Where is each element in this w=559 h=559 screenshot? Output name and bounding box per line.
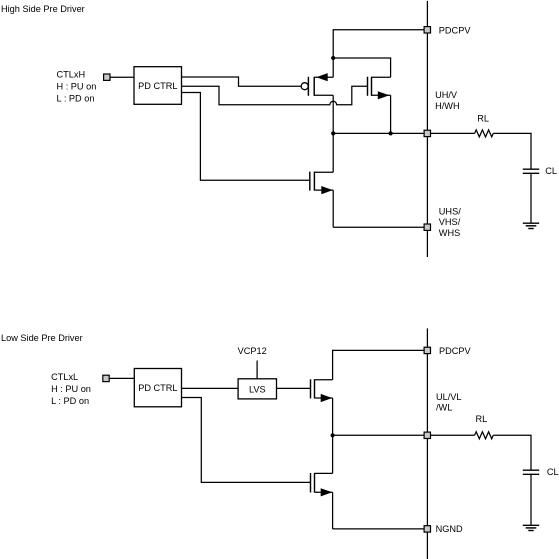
svg-text:H : PU on: H : PU on [57, 82, 97, 92]
block PD CTRL U2 (low side) [134, 369, 181, 407]
capacitor CL (high side) [523, 169, 539, 173]
wire CTLxL to PD CTRL input [110, 377, 135, 379]
junction dot UH/V rail left [331, 131, 335, 135]
wire VCP12 to LVS [256, 361, 258, 379]
wire Q2 source to UH/V rail [390, 95, 392, 133]
label UL/VL /WL [436, 392, 462, 413]
terminal CTLxH [104, 74, 110, 80]
ground (low side load) [523, 525, 539, 530]
wire PD CTRL out2 to Q5 gate [182, 398, 311, 483]
svg-text:PDCPV: PDCPV [439, 25, 472, 35]
wire Q4 source to UL/VL rail [332, 398, 334, 435]
svg-text:/WL: /WL [436, 403, 452, 413]
svg-text:PD CTRL: PD CTRL [138, 81, 177, 91]
junction dot UH/V rail right [389, 131, 393, 135]
wire UL/VL to RL (low side) [431, 434, 475, 436]
node CTLxH input label [57, 69, 97, 103]
terminal UL/VL [424, 432, 430, 438]
wire top link node to Q2 drain [333, 58, 390, 77]
transistor Q1 (high side PMOS pull-up, gate bubble) [301, 73, 333, 96]
svg-text:CTLxH: CTLxH [57, 69, 86, 79]
wire Q5 drain to UL/VL rail [332, 435, 334, 473]
svg-text:CTLxL: CTLxL [51, 372, 78, 382]
capacitor CL (low side) [523, 470, 539, 474]
wire PD CTRL out2 to Q2 gate (hop over Q1 drain) [182, 86, 368, 105]
wire phase bus vertical (high side) [426, 1, 428, 257]
svg-text:WHS: WHS [439, 228, 460, 238]
wire CL to ground (low side) [530, 474, 532, 525]
wire phase bus vertical (low side) [426, 328, 428, 559]
svg-text:H : PU on: H : PU on [51, 384, 91, 394]
svg-text:UH/V: UH/V [435, 90, 458, 100]
resistor RL (low side) [475, 432, 494, 439]
terminal UHS/VHS/WHS [424, 224, 430, 230]
transistor Q3 (high side NMOS pull-down) [310, 172, 333, 195]
ground (high side load) [523, 223, 539, 228]
wire Q3 source down to UHS rail [332, 190, 334, 227]
svg-text:LVS: LVS [249, 384, 266, 394]
wire RL to CL node (high side) [493, 133, 531, 169]
terminal UH/V H/WH [424, 130, 430, 136]
svg-text:UL/VL: UL/VL [436, 392, 462, 402]
wire UH/V output rail [333, 132, 423, 134]
resistor RL (high side) [475, 130, 494, 137]
wire UH/V to RL (high side) [431, 132, 475, 134]
transistor Q2 (high side, right) [368, 77, 391, 100]
svg-text:CL: CL [545, 166, 557, 176]
transistor Q5 (low side pull-down) [311, 473, 333, 496]
block PD CTRL U1 (high side) [134, 67, 182, 105]
wire NGND rail [333, 528, 424, 530]
wire PD CTRL out3 to Q3 gate [182, 93, 310, 181]
svg-text:VCP12: VCP12 [238, 346, 267, 356]
svg-text:RL: RL [476, 414, 488, 424]
node CTLxL input label [51, 372, 91, 406]
wire PD CTRL to LVS [182, 387, 239, 389]
wire UHS rail [333, 226, 423, 228]
wire CL to ground (high side) [530, 173, 532, 223]
wire Q3 drain to UH/V rail [332, 133, 334, 172]
svg-text:H/WH: H/WH [435, 101, 460, 111]
label UHS/VHS/WHS [439, 206, 461, 238]
terminal PDCPV (low side) [424, 347, 430, 353]
block LVS U3 [238, 379, 276, 399]
terminal PDCPV (high side) [424, 27, 430, 33]
label UH/V H/WH [435, 90, 460, 111]
junction dot at Q1 source node [331, 56, 335, 60]
transistor Q4 (low side pull-up) [311, 379, 333, 402]
svg-text:PDCPV: PDCPV [439, 346, 472, 356]
wire UL/VL output rail [333, 434, 424, 436]
wire PDCPV rail (high side) [333, 30, 423, 77]
wire Q5 source down to NGND rail [332, 492, 334, 529]
svg-text:NGND: NGND [436, 524, 463, 534]
svg-text:L : PD on: L : PD on [51, 396, 89, 406]
svg-text:High Side Pre Driver: High Side Pre Driver [1, 4, 85, 14]
wire Q1 drain to UH/V rail [332, 95, 334, 133]
svg-text:RL: RL [477, 113, 489, 123]
wire LVS to Q4 gate [277, 387, 311, 389]
wire RL to CL node (low side) [493, 435, 531, 470]
wire PDCPV rail (low side) [333, 350, 424, 379]
svg-text:L : PD on: L : PD on [57, 94, 95, 104]
svg-text:Low Side Pre Driver: Low Side Pre Driver [1, 333, 83, 343]
terminal CTLxL [103, 375, 109, 381]
svg-text:PD CTRL: PD CTRL [138, 383, 177, 393]
junction dot UL/VL rail [331, 433, 335, 437]
svg-text:VHS/: VHS/ [439, 217, 461, 227]
svg-text:CL: CL [547, 467, 559, 477]
wire PD CTRL out1 to Q1 gate bubble [182, 77, 302, 86]
wire CTLxH to PD CTRL input [111, 76, 135, 78]
svg-text:UHS/: UHS/ [439, 206, 461, 216]
terminal NGND [424, 526, 430, 532]
